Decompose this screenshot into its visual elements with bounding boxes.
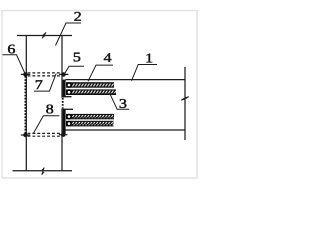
lower end plate [63, 109, 66, 134]
splice bar 4 (hatched section) [66, 82, 114, 88]
bolt ring on lower bar (upper row) [67, 115, 71, 119]
leader label 8 [34, 116, 60, 133]
leader label 6 [3, 55, 26, 74]
hidden plate edge between connections [62, 98, 64, 109]
lower seat bar lower (hatched section) [66, 121, 114, 127]
column 2 bottom cut line [13, 170, 73, 172]
bolt ring on bar 4 [67, 83, 71, 87]
leader label 5 [64, 66, 84, 75]
label 2 [74, 12, 80, 21]
beam 1 top flange wire [66, 79, 186, 81]
break mark on top cap [42, 32, 46, 38]
column 2 right edge wire (upper) [61, 36, 63, 98]
leader label 2 [56, 23, 82, 46]
bolt 5 top-right [59, 72, 68, 76]
upper seat lip [63, 96, 72, 98]
label 5 [74, 53, 80, 62]
beam 1 right cut edge wire [184, 67, 186, 140]
hidden tie rod 7 (dashed pair) [28, 73, 62, 76]
break mark on bottom cap [42, 168, 45, 175]
bolt 5 top-left [21, 72, 30, 76]
bolt bottom-right [59, 133, 67, 137]
bolt bottom-left [21, 133, 30, 137]
page frame [2, 11, 197, 179]
upper end plate [63, 80, 66, 98]
column 2 right edge wire (lower) [61, 109, 63, 171]
label 8 [46, 105, 53, 114]
label 7 [36, 80, 43, 89]
label 6 [8, 45, 15, 54]
break mark on beam cut edge [181, 97, 189, 101]
column 2 left edge wire [25, 36, 27, 171]
lower seat lip [63, 108, 73, 110]
label 3 [120, 99, 127, 108]
leader label 1 [132, 65, 158, 81]
bolt ring on bar 3 [67, 90, 71, 94]
leader label 7 [34, 74, 56, 92]
plate 6 far-side plate (thick dashed) [24, 73, 26, 136]
hidden tie rod 8 (dashed pair) [28, 133, 61, 136]
beam 1 bottom flange wire [63, 129, 185, 131]
splice bar 3 (hatched section) [66, 89, 116, 95]
column 2 top cut line [17, 35, 72, 37]
label 1 [146, 54, 152, 63]
leader label 4 [88, 65, 113, 81]
label 4 [104, 53, 111, 62]
lower seat bar upper (hatched section) [66, 114, 114, 119]
leader label 3 [110, 94, 129, 109]
bolt ring on lower bar (lower row) [67, 122, 71, 126]
